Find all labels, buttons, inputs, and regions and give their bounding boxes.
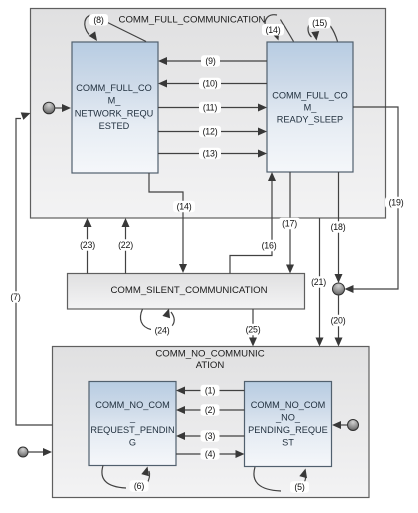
svg-text:(14): (14) (266, 25, 281, 35)
svg-text:(9): (9) (205, 56, 215, 66)
label (16) (258, 240, 280, 252)
svg-text:(20): (20) (331, 316, 346, 326)
svg-text:(16): (16) (262, 241, 277, 251)
svg-text:(17): (17) (282, 219, 297, 229)
junction dot (333, 283, 345, 295)
svg-text:(2): (2) (205, 405, 215, 415)
label (17) (279, 218, 301, 230)
label (1) (201, 385, 220, 397)
svg-text:_NO_: _NO_ (275, 413, 301, 423)
svg-text:ATION: ATION (196, 360, 225, 371)
transition (10) wire (158, 80, 267, 88)
svg-text:NETWORK_REQU: NETWORK_REQU (75, 108, 154, 118)
state COMM_FULL_COM_NETWORK_REQUESTED (72, 42, 158, 173)
svg-text:(23): (23) (80, 240, 95, 250)
svg-text:G: G (129, 438, 136, 448)
transition (6) self loop (102, 465, 151, 488)
svg-text:(13): (13) (203, 149, 218, 159)
label (15) (309, 17, 331, 29)
label (18) (327, 221, 349, 233)
label (8) (89, 14, 108, 26)
transition (11) wire (158, 104, 267, 112)
svg-text:ST: ST (282, 438, 294, 448)
transition (24) self loop silent (140, 307, 174, 329)
svg-text:(11): (11) (203, 103, 217, 113)
label (3) (201, 430, 220, 442)
svg-text:(8): (8) (93, 15, 103, 25)
state COMM_FULL_COM_READY_SLEEP (267, 42, 353, 172)
label (2) (201, 404, 220, 416)
initial dot no pending request (332, 420, 359, 431)
transition (9) wire (158, 57, 267, 65)
initial dot no communication (18, 447, 52, 457)
svg-text:COMM_FULL_CO: COMM_FULL_CO (76, 83, 152, 93)
label (9) (201, 55, 220, 66)
svg-text:PENDING_REQUE: PENDING_REQUE (248, 425, 328, 435)
label (24) (151, 325, 173, 337)
svg-text:COMM_NO_COMMUNIC: COMM_NO_COMMUNIC (155, 348, 264, 359)
transition (13) wire (158, 150, 267, 158)
transition (16) wire (230, 172, 276, 274)
label (25) (242, 324, 264, 336)
svg-text:(7): (7) (10, 292, 20, 302)
svg-text:(14): (14) (177, 202, 192, 212)
transition (25) wire (249, 309, 257, 347)
state COMM_NO_COM_REQUEST_PENDING (89, 382, 176, 466)
transition (19) wire (345, 107, 399, 293)
label (12) (199, 126, 221, 138)
initial dot full communication (43, 102, 71, 114)
label (13) (199, 148, 221, 160)
transition (14) wire to silent (149, 173, 183, 264)
label (10) (199, 78, 221, 90)
transition (21) wire (316, 218, 324, 347)
svg-text:(18): (18) (331, 222, 346, 232)
transition (4) wire (176, 450, 245, 458)
svg-text:COMM_FULL_CO: COMM_FULL_CO (272, 91, 348, 101)
svg-text:COMM_FULL_COMMUNICATION: COMM_FULL_COMMUNICATION (119, 15, 266, 26)
transition (17) wire (286, 172, 294, 274)
label (14) mid (173, 201, 195, 213)
svg-text:(6): (6) (134, 481, 144, 491)
transition (2) wire (176, 406, 245, 414)
svg-text:ESTED: ESTED (99, 121, 130, 131)
svg-text:M_: M_ (304, 103, 318, 113)
svg-text:(12): (12) (203, 127, 218, 137)
svg-text:(24): (24) (155, 326, 170, 336)
svg-text:_: _ (129, 413, 136, 423)
svg-text:COMM_NO_COM: COMM_NO_COM (251, 400, 326, 410)
svg-text:READY_SLEEP: READY_SLEEP (277, 115, 343, 125)
label (6) (130, 480, 149, 492)
label (7) (6, 291, 25, 303)
svg-text:(21): (21) (311, 277, 326, 287)
svg-text:REQUEST_PENDIN: REQUEST_PENDIN (90, 425, 174, 435)
label (14) top (262, 24, 284, 36)
svg-text:COMM_NO_COM: COMM_NO_COM (95, 400, 170, 410)
transition (7) wire (16, 109, 53, 425)
label (4) (201, 448, 220, 460)
transition (1) wire (176, 387, 245, 395)
svg-text:(3): (3) (205, 431, 215, 441)
transition (20) wire (335, 295, 343, 347)
label (20) (327, 315, 349, 327)
transition (22) wire (122, 218, 130, 274)
composite state COMM_NO_COMMUNICATION (53, 347, 370, 498)
svg-text:(25): (25) (246, 325, 261, 335)
transition (5) self loop (254, 467, 309, 491)
transition (14) self loop ready sleep (265, 15, 293, 42)
transition (18) wire (335, 172, 343, 283)
transition (12) wire (158, 128, 267, 136)
transition (15) self loop ready sleep (308, 20, 338, 42)
label (5) (290, 481, 309, 493)
label (19) (385, 197, 407, 209)
state COMM_SILENT_COMMUNICATION (68, 274, 305, 310)
svg-text:(1): (1) (205, 386, 215, 396)
svg-text:(5): (5) (294, 482, 304, 492)
svg-text:(10): (10) (203, 79, 218, 89)
transition (3) wire (176, 432, 245, 440)
transition (8) self loop (85, 15, 146, 44)
svg-text:M_: M_ (108, 96, 122, 106)
svg-text:COMM_SILENT_COMMUNICATION: COMM_SILENT_COMMUNICATION (110, 285, 267, 296)
transition (23) wire (84, 218, 92, 274)
label (23) (77, 239, 99, 251)
svg-text:(19): (19) (389, 198, 404, 208)
state COMM_NO_COM_NO_PENDING_REQUEST (245, 382, 332, 467)
composite state COMM_FULL_COMMUNICATION (31, 9, 386, 219)
svg-text:(15): (15) (312, 18, 327, 28)
label (11) (199, 102, 221, 114)
label (21) (308, 276, 330, 288)
svg-text:(4): (4) (205, 449, 215, 459)
label (22) (115, 239, 137, 251)
svg-text:(22): (22) (118, 240, 133, 250)
